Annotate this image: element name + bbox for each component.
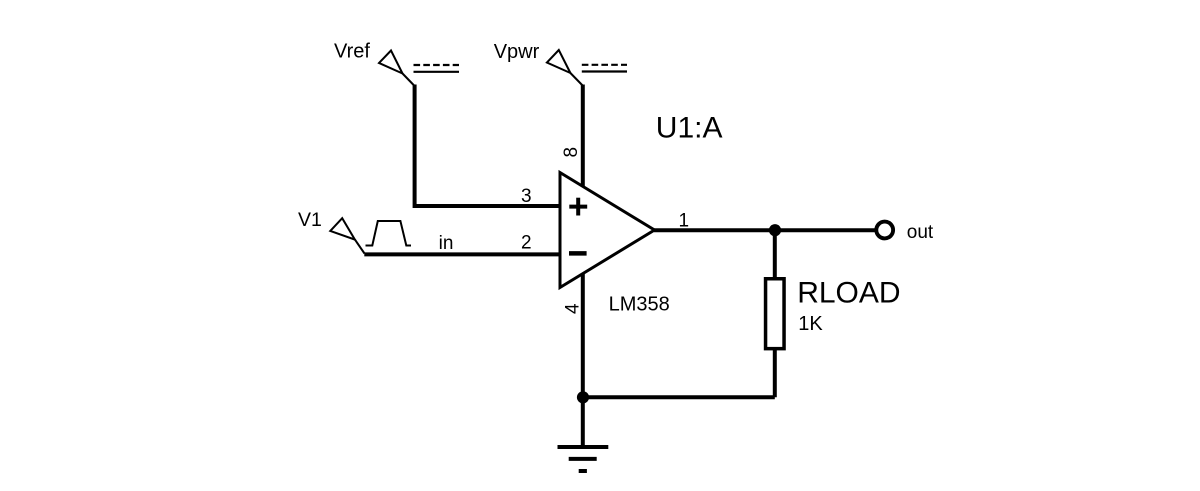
wire bottom rail	[583, 395, 775, 399]
wire junction to ground	[581, 397, 585, 445]
wire V1 to pin 2	[364, 252, 559, 256]
wire pin 4 down	[581, 274, 585, 397]
generator Vpwr symbol	[547, 50, 583, 86]
resistor RLOAD	[766, 279, 785, 349]
svg-text:4: 4	[562, 303, 583, 314]
junction at output	[769, 224, 781, 236]
svg-text:out: out	[907, 222, 934, 243]
minus sign	[569, 251, 587, 256]
wire Vpwr to pin 8	[581, 85, 585, 187]
DC symbol Vref	[414, 65, 460, 72]
svg-text:3: 3	[521, 186, 532, 207]
svg-text:8: 8	[561, 147, 582, 158]
wire Vref to pin 3	[415, 85, 560, 207]
terminal out	[876, 222, 893, 239]
DC symbol Vpwr	[582, 65, 627, 72]
junction at ground	[577, 391, 589, 403]
generator Vref symbol	[379, 51, 415, 87]
svg-text:1K: 1K	[798, 313, 823, 335]
svg-text:Vref: Vref	[334, 41, 370, 63]
wire junction to RLOAD	[773, 230, 777, 278]
svg-text:in: in	[439, 233, 454, 254]
wire pin 1 to out terminal	[654, 228, 875, 232]
wire RLOAD to bottom rail	[773, 349, 777, 398]
ground symbol	[558, 447, 609, 471]
svg-text:U1:A: U1:A	[656, 112, 723, 145]
svg-text:RLOAD: RLOAD	[797, 277, 900, 310]
plus sign	[569, 198, 587, 216]
svg-text:Vpwr: Vpwr	[494, 41, 540, 63]
generator V1 symbol	[330, 218, 364, 253]
op-amp U1:A body	[560, 173, 655, 288]
svg-text:V1: V1	[298, 209, 322, 231]
pulse waveform symbol	[366, 221, 412, 246]
svg-text:2: 2	[521, 233, 532, 254]
svg-text:LM358: LM358	[609, 293, 670, 315]
